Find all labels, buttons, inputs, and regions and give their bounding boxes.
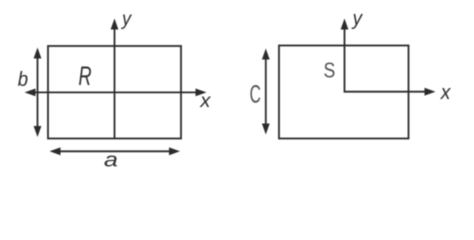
region label S — [324, 63, 334, 78]
label C — [250, 85, 260, 103]
y-axis of left diagram — [111, 19, 119, 139]
y axis label (right) — [351, 14, 362, 29]
dimension arrow C (vertical double arrow) — [262, 49, 270, 135]
rectangle S outline — [279, 46, 409, 139]
dimension arrow b (vertical double arrow) — [34, 48, 42, 138]
label a — [105, 156, 118, 167]
x-axis of left diagram (double-headed) — [25, 89, 207, 97]
x axis label (left) — [200, 97, 211, 107]
region label R — [79, 66, 91, 85]
label b — [18, 71, 27, 86]
axes of right diagram: y-axis down to origin, x-axis right from origin — [341, 19, 436, 96]
y axis label (left) — [121, 15, 132, 29]
dimension arrow a (horizontal double arrow) — [50, 147, 181, 155]
rectangle R outline — [48, 46, 181, 139]
x axis label (right) — [440, 88, 451, 99]
